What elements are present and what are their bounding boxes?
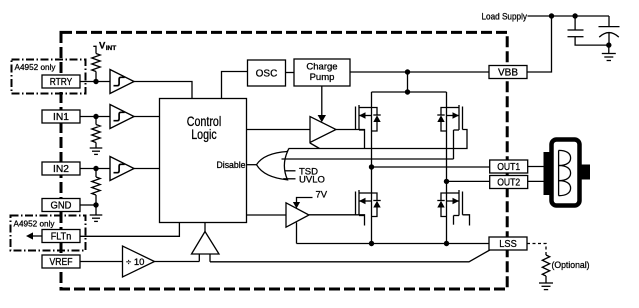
ground (optional sense resistor) bbox=[539, 283, 553, 290]
terminal OUT2 bbox=[490, 176, 528, 189]
capacitor C1 ceramic bypass bbox=[568, 16, 609, 45]
wire charge pump to VBB bbox=[350, 71, 489, 73]
node junction bridge rail bbox=[405, 89, 410, 94]
wire OR sense input from Q2 source bbox=[282, 158, 454, 160]
wire drain source Q4 bbox=[446, 181, 448, 243]
wire buffer RTRY to control logic bbox=[134, 82, 192, 99]
terminal FLTn bbox=[42, 230, 80, 243]
node junction IN1 bbox=[93, 114, 98, 119]
svg-text:UVLO: UVLO bbox=[299, 175, 325, 186]
svg-text:LSS: LSS bbox=[499, 239, 517, 250]
wire high gate rail bbox=[289, 130, 468, 149]
terminal VBB bbox=[489, 66, 527, 79]
svg-text:Load Supply: Load Supply bbox=[482, 12, 528, 23]
node junction caps to ground bbox=[606, 42, 611, 47]
ground (supply bypass) bbox=[602, 45, 616, 60]
terminal LSS bbox=[489, 237, 527, 250]
svg-text:FLTn: FLTn bbox=[51, 232, 72, 243]
wire FLTn to control logic bbox=[80, 222, 179, 236]
node junction Q4 source bbox=[444, 241, 449, 246]
charge pump block bbox=[294, 59, 350, 86]
wire RTRY to buffer bbox=[80, 81, 110, 83]
capacitor C2 electrolytic bbox=[599, 16, 620, 45]
wire GND to node bbox=[80, 204, 96, 206]
wire drain Q1 bbox=[371, 92, 373, 167]
resistor pull-down IN2 bbox=[92, 169, 100, 206]
terminal OUT1 bbox=[490, 160, 528, 173]
diode body Q3 bbox=[372, 193, 381, 217]
svg-text:IN1: IN1 bbox=[53, 112, 69, 123]
svg-text:Disable: Disable bbox=[217, 160, 246, 171]
wire buffer IN1 to control logic bbox=[134, 116, 160, 118]
node junction IN2 bbox=[93, 166, 98, 171]
terminal RTRY bbox=[42, 75, 80, 88]
wire divider to comparator bbox=[155, 261, 200, 263]
node junction on supply rail bbox=[549, 13, 554, 18]
node junction Q3 source bbox=[369, 241, 374, 246]
svg-text:OUT1: OUT1 bbox=[497, 162, 520, 173]
schmitt buffer IN1 bbox=[110, 105, 134, 129]
diode body Q1 bbox=[372, 108, 381, 132]
gate driver low side bbox=[286, 203, 309, 227]
wire OUT1 net bbox=[372, 166, 490, 168]
wire OSC to charge pump bbox=[286, 72, 295, 74]
fault OR gate bbox=[247, 152, 288, 180]
wire resistor to RTRY node bbox=[95, 72, 97, 82]
svg-text:RTRY: RTRY bbox=[50, 77, 73, 88]
ground (IN1 pull-down) bbox=[90, 148, 103, 154]
resistor pull-down IN1 bbox=[92, 117, 100, 149]
node junction OUT2 bbox=[444, 179, 449, 184]
wire gate rail to fault OR input bbox=[286, 149, 289, 154]
divider amp /10 bbox=[123, 246, 155, 277]
oscillator OSC bbox=[248, 60, 286, 86]
node junction OUT1 bbox=[369, 164, 374, 169]
ground (GND pin) bbox=[90, 205, 103, 221]
svg-text:Logic: Logic bbox=[191, 127, 217, 142]
wire LSS rail bbox=[297, 243, 490, 245]
node junction VBB feed bbox=[405, 69, 410, 74]
svg-text:A4952 only: A4952 only bbox=[15, 62, 57, 72]
wire low driver return to LSS bbox=[296, 222, 298, 243]
svg-text:VBB: VBB bbox=[498, 68, 518, 79]
transistor Q2 high-side right bbox=[447, 105, 463, 159]
wire control logic to high driver bbox=[247, 129, 311, 131]
svg-text:IN2: IN2 bbox=[53, 164, 69, 175]
svg-text:A4952 only: A4952 only bbox=[14, 219, 56, 229]
node junction RTRY bbox=[93, 79, 98, 84]
comparator current sense bbox=[192, 223, 220, 262]
schmitt buffer RTRY bbox=[110, 70, 134, 94]
terminal IN2 bbox=[42, 162, 80, 175]
wire drain source Q3 bbox=[371, 167, 373, 244]
wire VBB to bridge rail bbox=[407, 72, 409, 92]
terminal GND bbox=[42, 199, 80, 212]
schmitt buffer IN2 bbox=[110, 157, 134, 181]
A4952 only box (FLTn) bbox=[11, 216, 86, 251]
svg-text:÷ 10: ÷ 10 bbox=[126, 257, 144, 268]
resistor R sense (Optional) bbox=[542, 255, 549, 283]
wire OUT2 net bbox=[447, 180, 490, 182]
wire bridge top rail bbox=[372, 91, 447, 93]
wire OUT1 to load bbox=[528, 166, 544, 168]
transistor Q3 low-side left bbox=[356, 190, 372, 216]
svg-text:Charge: Charge bbox=[306, 62, 337, 73]
diode body Q2 bbox=[437, 108, 446, 132]
transistor Q1 high-side left bbox=[356, 105, 372, 130]
svg-text:INT: INT bbox=[106, 45, 117, 52]
wire: Load Supply rail bbox=[528, 15, 610, 17]
resistor pull-up on RTRY bbox=[92, 54, 100, 72]
gate driver high side bbox=[310, 117, 336, 143]
wire OUT2 to load bbox=[528, 180, 544, 182]
svg-text:OSC: OSC bbox=[256, 69, 278, 80]
wire high gate drive bbox=[336, 130, 365, 149]
A4952 only box (RTRY) bbox=[12, 60, 86, 94]
node VINT supply stub bbox=[93, 46, 96, 53]
wire charge pump to gate driver arrow bbox=[318, 86, 326, 122]
wire LSS optional resistor dashed bbox=[527, 244, 546, 256]
wire IN1 to buffer bbox=[80, 116, 110, 118]
wire sense feedback from LSS bbox=[210, 250, 490, 262]
wire buffer IN2 to control logic bbox=[134, 168, 160, 170]
node junction for ceramic cap bbox=[572, 13, 577, 18]
terminal VREF bbox=[42, 255, 80, 268]
load solenoid motor bbox=[544, 140, 591, 206]
terminal IN1 bbox=[42, 110, 80, 123]
transistor Q4 low-side right bbox=[447, 190, 470, 226]
wire IN2 to buffer bbox=[80, 168, 110, 170]
svg-text:Pump: Pump bbox=[310, 72, 335, 83]
wire UVLO input bbox=[283, 178, 295, 180]
svg-text:(Optional): (Optional) bbox=[552, 260, 590, 271]
wire control logic to low driver bbox=[247, 214, 287, 216]
svg-text:OUT2: OUT2 bbox=[497, 178, 520, 189]
wire OSC to control logic bbox=[222, 72, 248, 99]
wire high driver return diagonal bbox=[310, 143, 320, 149]
wire FLTn output arrow bbox=[26, 232, 42, 239]
wire: VBB feed from Load Supply bbox=[527, 16, 552, 72]
wire low gate drive bbox=[309, 215, 365, 226]
wire drain Q2 bbox=[446, 92, 448, 181]
node junction GND bbox=[93, 202, 98, 207]
chip boundary (dashed package outline) bbox=[61, 32, 507, 289]
label VINT bbox=[99, 41, 116, 53]
svg-text:GND: GND bbox=[51, 201, 72, 212]
control logic block U1 bbox=[160, 99, 247, 223]
svg-text:7V: 7V bbox=[316, 190, 328, 201]
diode body Q4 bbox=[437, 193, 446, 217]
wire VREF to divider bbox=[80, 261, 123, 263]
regulator 7V label and arrow bbox=[293, 190, 328, 209]
wire TSD input bbox=[285, 170, 296, 172]
svg-text:VREF: VREF bbox=[50, 257, 73, 268]
